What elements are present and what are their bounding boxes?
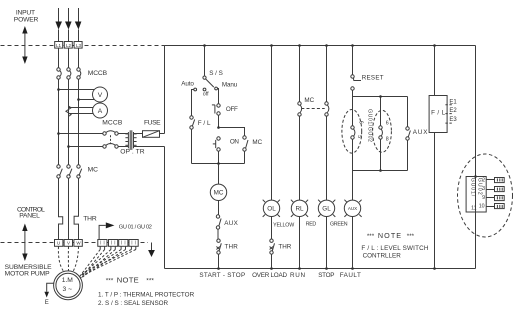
- terminal U: [55, 240, 63, 247]
- wire right control rail: [475, 46, 477, 269]
- wire GL to bottom rail: [326, 217, 328, 269]
- wire rail to selector: [204, 46, 206, 76]
- sensor terminal block 1 (T/P): [98, 240, 107, 250]
- wire relay B bottom: [380, 140, 382, 171]
- breaker MCCB (control, 2-pole): [102, 120, 123, 149]
- wire breaker to transformer primary top: [118, 133, 128, 135]
- wire voltmeter tap upper: [59, 89, 95, 91]
- svg-text:THR: THR: [225, 244, 239, 251]
- svg-text:***NOTE***: ***NOTE***: [367, 231, 415, 240]
- svg-text:off: off: [203, 92, 209, 98]
- contactor MC main contacts (3-pole): [57, 165, 98, 178]
- thermal overload THR heater phase1 (wire with jog): [59, 179, 63, 240]
- wire overload branch top: [271, 46, 273, 201]
- svg-text:L1: L1: [56, 43, 62, 48]
- current transformer on phase2: [66, 106, 71, 116]
- svg-text:F / L: F / L: [198, 120, 211, 127]
- svg-text:RED: RED: [306, 221, 317, 227]
- node bottom rail junctions: [217, 267, 436, 270]
- contact MC (stop lamp, NC): [325, 102, 329, 116]
- svg-text:1.M: 1.M: [62, 277, 74, 284]
- wire fault branch top: [352, 46, 354, 76]
- wire relay A top: [352, 97, 354, 126]
- svg-text:L2: L2: [66, 43, 72, 48]
- relay outline GU01/GU02 (dashed ellipse B): [373, 110, 392, 152]
- contact MC (holding, NO): [243, 136, 263, 151]
- wire relay parallel bottom: [353, 170, 408, 172]
- wire RESET down: [352, 91, 354, 97]
- wire transformer secondary top to fuse: [134, 133, 143, 135]
- wire phase2 MCCB to MC: [68, 80, 70, 165]
- wire ammeter tap lower: [69, 113, 94, 115]
- lamp RL (red, run): [291, 200, 308, 217]
- sensor terminal block 4 (S/S): [129, 240, 138, 250]
- terminal block out 3: [495, 196, 505, 201]
- wire L2 to MCCB: [68, 49, 70, 68]
- svg-text:V: V: [98, 92, 103, 99]
- wire AUX branch top: [407, 97, 409, 128]
- node control tap phase1: [57, 132, 60, 135]
- wire phase1 MCCB to MC: [58, 80, 60, 165]
- svg-text:PANEL: PANEL: [19, 213, 40, 220]
- wires (dashed) sensor leads to motor: [80, 250, 136, 279]
- wire RL to bottom rail: [299, 217, 301, 269]
- svg-text:9: 9: [482, 195, 485, 201]
- wire mechanical link (dashed): [301, 108, 324, 110]
- transformer OP.TR: [120, 130, 145, 155]
- fuse FUSE: [143, 120, 162, 138]
- relay socket outline (dashed ellipse): [458, 154, 513, 237]
- wire ammeter tap upper: [69, 107, 94, 109]
- controller F/L (level switch controller box): [429, 96, 447, 133]
- wire (dashed) terminal V to motor: [67, 247, 69, 271]
- svg-text:STOP: STOP: [318, 272, 334, 279]
- wire F/L controller branch: [434, 46, 436, 96]
- wire ON bottom: [218, 152, 220, 164]
- motor 1M (submersible pump motor): [54, 271, 83, 300]
- wire THR to bottom rail: [271, 255, 273, 269]
- svg-text:AUX: AUX: [224, 220, 238, 227]
- svg-text:L3: L3: [76, 43, 82, 48]
- node relay branch bottom: [379, 169, 382, 172]
- incoming supply arrow L3: [75, 8, 82, 42]
- svg-text:V: V: [67, 241, 70, 246]
- wire control tap upper: [59, 133, 103, 135]
- relay outline GU01/GU02 (dashed ellipse A): [342, 110, 362, 154]
- wire control tap lower: [69, 146, 103, 148]
- node ON/MC parallel top: [217, 126, 220, 129]
- sensor terminal block 3 (S/S): [119, 240, 128, 250]
- wire pin 10 out: [487, 206, 495, 208]
- svg-text:RL: RL: [295, 206, 304, 213]
- wire Manu position down: [218, 89, 219, 104]
- terminal W: [74, 240, 82, 247]
- svg-text:AUX: AUX: [413, 129, 429, 136]
- wire relay parallel top: [353, 96, 408, 98]
- wire MC to RL lamp: [299, 116, 301, 201]
- terminal L2: [64, 42, 72, 49]
- thermal overload THR heater phase3 (wire with jog): [74, 179, 78, 240]
- svg-text:2: 2: [482, 178, 485, 184]
- wire MC to GL lamp: [326, 116, 328, 201]
- wire (dashed) terminal W to motor: [73, 247, 79, 272]
- label CONTROL PANEL (lower-left): [17, 206, 45, 219]
- wire pin 9 out: [487, 197, 495, 199]
- node rail at relay socket: [474, 175, 477, 178]
- contact GU01/GU02 pins 8-6: [379, 126, 383, 139]
- dashed panel boundary line (top): [1, 45, 165, 47]
- wire coil to AUX: [218, 201, 220, 215]
- contact AUX (fault, NO): [406, 127, 428, 140]
- terminal E1: [445, 99, 457, 105]
- svg-text:E: E: [45, 300, 49, 306]
- node control tap phase2: [67, 145, 70, 148]
- svg-text:THR: THR: [83, 216, 97, 223]
- svg-text:OVER LOAD: OVER LOAD: [252, 272, 287, 279]
- ground E (motor earth): [44, 283, 53, 306]
- sensor terminal block 2 (T/P): [109, 240, 118, 250]
- wire L1 to MCCB: [58, 49, 60, 68]
- wire left control rail lower: [164, 147, 166, 269]
- wire left control rail upper: [164, 46, 166, 134]
- terminal block out 4: [495, 204, 505, 209]
- boundary double-arrow (input power / control panel): [22, 26, 27, 64]
- contact THR (overload trip, lamp branch): [270, 239, 292, 254]
- contact F/L (level switch, NO): [190, 116, 211, 129]
- svg-text:MC: MC: [304, 97, 314, 104]
- node voltmeter tap phase1: [57, 88, 60, 91]
- svg-text:GU01/: GU01/: [470, 178, 476, 197]
- selector switch S/S (Auto-off-Manu): [181, 70, 237, 97]
- wire OFF to ON junction: [218, 116, 220, 128]
- svg-text:3: 3: [482, 186, 485, 192]
- wire voltmeter tap lower: [79, 99, 95, 101]
- contact GU01/GU02 pins 5-6: [351, 126, 355, 139]
- pushbutton OFF (NC): [212, 104, 238, 115]
- contact THR (overload trip): [216, 239, 238, 254]
- wire breaker to transformer primary bottom: [118, 146, 128, 148]
- node voltmeter tap phase3: [77, 98, 80, 101]
- svg-text:AUX: AUX: [348, 206, 357, 211]
- contact AUX (NO): [216, 215, 238, 229]
- wire fuse to left control rail: [160, 133, 165, 135]
- node parallel join: [217, 162, 220, 165]
- wire stop branch top: [326, 46, 328, 102]
- svg-text:MCCB: MCCB: [88, 70, 108, 77]
- wire AUX lamp to bottom rail: [352, 217, 354, 269]
- wire pin 3 out: [487, 189, 495, 191]
- node relay branch top: [379, 95, 382, 98]
- annotation arrow to GU 01 / GU 02: [99, 222, 152, 239]
- label INPUT POWER: [14, 10, 39, 24]
- svg-text:MCCB: MCCB: [102, 120, 123, 127]
- svg-text:2. S / S : SEAL SENSOR: 2. S / S : SEAL SENSOR: [98, 300, 169, 307]
- terminal L3: [74, 42, 82, 49]
- svg-text:U: U: [57, 241, 60, 246]
- svg-text:F / L: F / L: [431, 110, 445, 117]
- wire F/L box to bottom rail: [434, 133, 436, 269]
- terminal V: [64, 240, 72, 247]
- svg-text:RESET: RESET: [362, 74, 384, 81]
- svg-text:MC: MC: [214, 190, 224, 197]
- svg-text:RUN: RUN: [290, 272, 305, 279]
- dashed panel boundary line (bottom): [1, 242, 149, 244]
- note (level switch): [361, 231, 428, 260]
- boundary double-arrow (control panel / pump): [22, 224, 27, 262]
- svg-text:CONTRLLER: CONTRLLER: [363, 253, 402, 260]
- wire top control rail: [165, 45, 476, 47]
- wire fault to AUX lamp: [352, 171, 354, 201]
- note (pump sensors): [98, 275, 195, 306]
- wire (dashed) terminal U to motor: [58, 247, 64, 272]
- svg-text:6: 6: [386, 121, 389, 127]
- svg-text:YELLOW: YELLOW: [273, 223, 294, 229]
- svg-text:10: 10: [479, 204, 485, 210]
- svg-text:MOTOR PUMP: MOTOR PUMP: [5, 271, 51, 278]
- svg-text:OP . TR: OP . TR: [120, 149, 145, 156]
- wire AUX to THR: [217, 230, 219, 240]
- pushbutton ON (NO): [213, 137, 240, 151]
- svg-text:A: A: [98, 108, 103, 115]
- wire parallel join: [192, 163, 245, 165]
- wire phase3 MCCB to MC: [78, 80, 80, 165]
- svg-text:GU 01 / GU 02: GU 01 / GU 02: [119, 225, 152, 231]
- svg-text:POWER: POWER: [14, 16, 39, 23]
- breaker MCCB (main, 3-pole): [57, 68, 108, 79]
- svg-text:OFF: OFF: [226, 106, 238, 113]
- svg-text:MC: MC: [252, 139, 262, 146]
- label SUBMERSIBLE MOTOR PUMP: [5, 264, 53, 278]
- node top rail junctions: [203, 44, 436, 47]
- svg-text:***NOTE***: ***NOTE***: [106, 275, 155, 284]
- svg-text:MC: MC: [88, 167, 99, 174]
- terminal L1: [55, 42, 63, 49]
- svg-text:FAULT: FAULT: [340, 272, 361, 279]
- terminal block out 2: [495, 187, 505, 192]
- svg-text:GU01/GU02: GU01/GU02: [367, 109, 373, 142]
- incoming supply arrow L2: [65, 8, 72, 42]
- svg-text:GREEN: GREEN: [330, 221, 348, 227]
- boundary down-arrow (right end of dashed line): [148, 243, 155, 258]
- lamp AUX (fault): [344, 200, 361, 217]
- svg-text:8: 8: [386, 136, 389, 142]
- svg-text:1. T / P : THERMAL PROTECTOR: 1. T / P : THERMAL PROTECTOR: [98, 291, 195, 298]
- meter V (voltmeter): [93, 87, 108, 102]
- wire transformer secondary bottom to left control rail: [134, 146, 165, 148]
- lamp OL (yellow, overload): [263, 200, 280, 217]
- svg-text:Manu: Manu: [222, 82, 238, 89]
- terminal block out 1: [495, 178, 505, 183]
- svg-text:E3: E3: [449, 117, 457, 123]
- svg-text:START - STOP: START - STOP: [199, 272, 245, 279]
- wire run branch top: [299, 46, 301, 102]
- wire join to coil: [218, 164, 220, 185]
- meter A (ammeter): [93, 103, 108, 118]
- wire THR to bottom rail: [218, 255, 220, 269]
- wire F/L to join: [191, 130, 193, 164]
- contact MC (run lamp, NO): [298, 102, 302, 116]
- svg-text:S / S: S / S: [209, 70, 223, 77]
- terminal E2: [445, 108, 457, 114]
- wire OL to THR: [271, 217, 273, 240]
- wire MC bottom: [244, 152, 246, 164]
- svg-text:ON: ON: [230, 139, 239, 146]
- wire relay B top: [380, 97, 382, 126]
- incoming supply arrow L1: [55, 8, 62, 42]
- svg-text:FUSE: FUSE: [144, 120, 161, 127]
- pushbutton RESET (NC): [351, 74, 384, 90]
- wire pin 2 out: [487, 179, 495, 181]
- svg-text:F / L : LEVEL SWITCH: F / L : LEVEL SWITCH: [361, 245, 428, 252]
- wire phase2 to terminal V: [68, 179, 70, 240]
- wire parallel top branch: [219, 128, 245, 136]
- lamp GL (green, stop): [318, 200, 335, 217]
- wire Auto position down: [192, 90, 194, 117]
- wire L3 to MCCB: [78, 49, 80, 68]
- wire relay A bottom: [352, 140, 354, 171]
- wire AUX branch bottom: [407, 141, 409, 171]
- relay socket GU01/GU02 (output block): [466, 177, 486, 213]
- svg-text:3 ~: 3 ~: [63, 286, 73, 293]
- terminal E3: [445, 117, 457, 123]
- svg-text:11: 11: [471, 206, 477, 212]
- svg-text:OL: OL: [267, 206, 276, 213]
- svg-text:THR: THR: [278, 244, 291, 251]
- wire bottom control rail: [165, 268, 476, 270]
- coil MC (contactor): [210, 184, 226, 200]
- svg-text:Auto: Auto: [181, 81, 194, 88]
- svg-text:GL: GL: [322, 206, 331, 213]
